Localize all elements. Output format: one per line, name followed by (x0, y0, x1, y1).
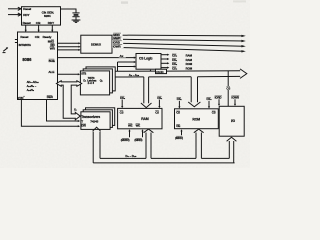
hollow address bus to RAM (141, 77, 152, 108)
address bus arrowhead (240, 69, 247, 79)
svg-text:ROM: ROM (192, 118, 200, 122)
svg-text:DEMUX: DEMUX (91, 43, 101, 47)
svg-text:AD₀–AD₁₅: AD₀–AD₁₅ (27, 80, 40, 84)
MRD control line (112, 35, 246, 37)
data riser into I/O (227, 137, 237, 163)
svg-text:Q₁: Q₁ (100, 78, 103, 82)
ground (72, 20, 81, 22)
CS0 arrow into RAM (121, 100, 123, 109)
IORD control line (112, 43, 246, 47)
CS3 output arrow (161, 67, 169, 69)
address input wire 2 to CS logic (118, 62, 137, 71)
label CS above I/O (226, 86, 232, 90)
address tap into CS logic (149, 69, 151, 71)
transceiver stack 74245 U6 (81, 108, 115, 130)
svg-text:Clk: Clk (36, 21, 41, 25)
address input wire to CS logic (118, 61, 137, 63)
MWR control line (112, 39, 246, 42)
svg-text:STB: STB (81, 71, 86, 75)
svg-text:A₁₆/S₃ –: A₁₆/S₃ – (27, 84, 37, 88)
CS3 arrow into ROM (208, 101, 210, 109)
ROM U8 (175, 109, 219, 129)
svg-text:8284: 8284 (44, 14, 51, 18)
data bus D0-D15 upper line (100, 157, 229, 159)
svg-text:CS I/O: CS I/O (156, 70, 163, 74)
wire rdy clockgen to CPU (51, 25, 53, 32)
svg-text:X₁: X₁ (74, 109, 77, 112)
DT/R wire to transceiver OE (21, 100, 80, 128)
svg-text:Reset: Reset (20, 35, 28, 39)
wire M/IO to demux (58, 42, 81, 44)
CS I/O box (156, 69, 167, 73)
data bus riser from transceiver (93, 127, 101, 163)
clock generator 8284 U1 (22, 7, 61, 25)
data riser into RAM (144, 129, 154, 158)
interrupt arrow (3, 47, 9, 52)
svg-text:I/O: I/O (231, 119, 236, 123)
address bus A0-A19 lower line (115, 75, 240, 78)
svg-text:ALE: ALE (48, 70, 54, 74)
svg-text:74245: 74245 (90, 119, 98, 123)
INTA stub (15, 42, 18, 44)
svg-text:Reset: Reset (23, 21, 31, 25)
svg-text:WR: WR (50, 46, 56, 50)
CS1 output arrow (161, 58, 169, 60)
crystal X1 (61, 9, 80, 20)
data riser into ROM (194, 129, 204, 158)
IORD arrow into I/O (218, 99, 220, 106)
svg-text:D₀ – D₁₅: D₀ – D₁₅ (125, 154, 137, 158)
scan smudge top right (233, 0, 246, 2)
label D0 - D15 (125, 153, 141, 158)
CS2 arrow into ROM (178, 101, 180, 109)
BHE wire to CS logic (58, 57, 137, 59)
data bus D0-D15 lower line (93, 162, 234, 164)
svg-text:INTR/INTA: INTR/INTA (19, 43, 31, 47)
IOWR control line (112, 47, 246, 52)
label IORD (112, 40, 123, 44)
svg-text:Transceivers: Transceivers (81, 115, 100, 119)
RDY input arrow (8, 13, 21, 16)
IOWR arrow into I/O (234, 99, 236, 106)
demux U3 (81, 35, 112, 53)
svg-text:A₀ – A₁₉: A₀ – A₁₉ (129, 73, 140, 77)
latch stack 74573 U5 (80, 67, 115, 95)
I/O port U9 (219, 106, 244, 136)
hollow address bus to ROM (188, 77, 200, 107)
svg-text:IOWR: IOWR (113, 44, 122, 48)
svg-text:A​x: A​x (120, 54, 124, 58)
wire RD to demux (58, 46, 81, 48)
cpu 8086 U2 (18, 32, 58, 100)
svg-text:Clk: Clk (35, 35, 40, 39)
svg-text:ROM: ROM (186, 67, 193, 71)
CS1 arrow into RAM (158, 100, 160, 109)
INTR input stub (15, 39, 18, 41)
wire clk clockgen to CPU (38, 25, 40, 32)
label MRD (113, 32, 123, 36)
svg-text:8086: 8086 (22, 57, 32, 62)
svg-text:CS Logic: CS Logic (139, 56, 153, 60)
wire WR to demux (58, 49, 81, 51)
MRD arrow into ROM (180, 129, 182, 135)
svg-text:RDY: RDY (23, 13, 30, 17)
RAM U7 (118, 108, 162, 128)
svg-text:Ready: Ready (43, 35, 52, 39)
address bus A0-A19 upper line (115, 70, 240, 73)
svg-text:DT/R: DT/R (17, 96, 24, 100)
svg-text:2 or 3: 2 or 3 (88, 81, 95, 85)
svg-text:Reset: Reset (23, 7, 31, 11)
svg-text:A₁₉/S₆: A₁₉/S₆ (27, 88, 35, 92)
reset input arrow (8, 7, 21, 10)
cpu-latch bus arrow with drop to transceivers (56, 81, 81, 120)
ALE wire to latches (58, 73, 81, 75)
svg-text:RDY: RDY (48, 21, 55, 25)
label MWR (113, 36, 123, 40)
CS0 output arrow (161, 54, 169, 56)
MRD arrow into RAM (141, 129, 143, 137)
MWR arrow into RAM (128, 129, 130, 137)
DEN wire to transceiver T (47, 100, 81, 123)
svg-text:BHE: BHE (49, 59, 55, 63)
label Ax (119, 54, 126, 58)
label IOWR (112, 44, 123, 48)
svg-text:D₁: D₁ (83, 78, 86, 82)
CS I/O wire to I/O port (227, 71, 229, 106)
svg-text:RAM: RAM (141, 117, 149, 121)
wire reset clockgen to CPU (25, 25, 27, 32)
CS2 output arrow (161, 62, 169, 64)
CS logic U4 (136, 54, 161, 70)
scan smudge top left (121, 1, 128, 3)
